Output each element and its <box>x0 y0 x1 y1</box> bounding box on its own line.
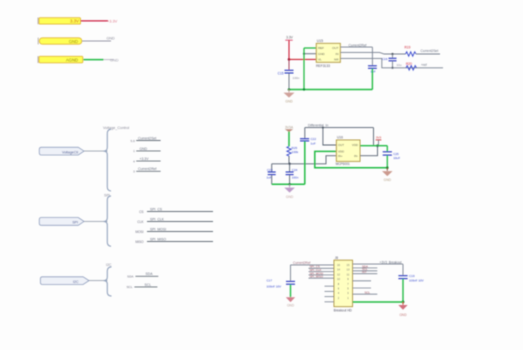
regulator U15 <box>316 39 340 68</box>
wire header left stub r8 <box>325 296 335 298</box>
svg-text:SPI_MISO: SPI_MISO <box>310 275 324 279</box>
svg-text:Differential_In: Differential_In <box>308 124 328 128</box>
svg-text:+ref: +ref <box>421 63 427 67</box>
wire header right r3 <box>353 270 378 272</box>
svg-text:J8: J8 <box>335 256 339 260</box>
capacitor C22 <box>300 128 316 146</box>
wire red to U15 <box>289 58 316 60</box>
svg-text:C23: C23 <box>267 168 273 172</box>
green bus circuit1 <box>289 89 372 91</box>
harness brace 2 <box>104 196 111 246</box>
junction K <box>386 166 389 169</box>
svg-text:Current2Set: Current2Set <box>421 49 439 53</box>
svg-text:CS: CS <box>139 210 143 214</box>
wire header left r3 <box>309 271 335 273</box>
resistor R20 <box>406 62 417 70</box>
svg-text:3.3V: 3.3V <box>70 19 79 24</box>
junction C <box>288 88 291 91</box>
svg-text:SDA: SDA <box>127 275 134 279</box>
wire node horizontal <box>272 156 337 164</box>
net Current2Set row1 <box>130 136 160 142</box>
svg-text:MISO: MISO <box>135 240 144 244</box>
header J8 <box>334 256 353 312</box>
resistor R25 <box>287 146 299 156</box>
wire green header bottom <box>353 301 404 303</box>
svg-text:OUT: OUT <box>332 46 339 50</box>
wire header left r1 <box>291 264 335 266</box>
wire 3.3V <box>81 20 109 22</box>
svg-text:SPI: SPI <box>72 221 78 225</box>
svg-text:VDD: VDD <box>352 143 358 147</box>
wire rowB out <box>416 53 440 55</box>
wire rowC <box>340 58 443 67</box>
wire green pin1 U15 <box>304 47 316 49</box>
svg-text:3.3V: 3.3V <box>286 36 294 40</box>
capacitor C17 <box>267 265 296 289</box>
junction H <box>288 183 291 186</box>
wire harness2 <box>84 220 107 222</box>
svg-text:+3V3_Breakout: +3V3_Breakout <box>380 260 402 264</box>
junction F <box>391 67 393 69</box>
svg-text:IN+: IN+ <box>338 154 343 158</box>
svg-text:SPI_MOSI: SPI_MOSI <box>150 227 166 231</box>
wire header right r2 <box>353 267 378 269</box>
wire green vert A <box>304 141 306 184</box>
power flag GND2 <box>37 56 39 63</box>
wire header right stub r5 <box>353 280 372 282</box>
wire pin1 opamp <box>323 128 337 145</box>
ground circuit2 <box>284 184 295 199</box>
net Current2Ref row4 <box>133 167 161 173</box>
svg-text:5,6: 5,6 <box>130 139 135 143</box>
net SPI_CS <box>139 207 213 213</box>
capacitor C23 <box>267 164 276 185</box>
junction E <box>391 53 393 55</box>
svg-text:1uF: 1uF <box>311 142 316 146</box>
net SDA <box>127 272 158 278</box>
op-amp U16 <box>336 136 360 166</box>
svg-text:3V3A: 3V3A <box>285 125 294 129</box>
svg-text:C16: C16 <box>382 57 388 61</box>
junction J <box>376 144 379 147</box>
power flag 3.3V <box>37 18 39 25</box>
wire harness3 <box>89 280 107 282</box>
ground circuit3 right <box>398 302 407 317</box>
wire rowB <box>340 52 405 54</box>
svg-text:GND: GND <box>107 36 116 40</box>
capacitor C25 <box>383 146 401 168</box>
svg-text:1uF: 1uF <box>267 176 272 180</box>
svg-text:+3.3V: +3.3V <box>140 157 150 161</box>
wire header right stub r6 <box>353 287 372 289</box>
svg-text:REF: REF <box>318 46 324 50</box>
junction G <box>288 163 290 165</box>
wire header left r2 <box>309 267 335 269</box>
svg-text:U16: U16 <box>337 136 343 140</box>
svg-text:GND: GND <box>384 178 392 182</box>
wire header left stub r6 <box>325 285 335 287</box>
wire header left r5 <box>309 277 335 279</box>
svg-text:GND: GND <box>286 195 294 199</box>
svg-text:OUT: OUT <box>338 143 344 147</box>
junction L <box>402 301 405 304</box>
harness brace 1 <box>104 129 111 191</box>
net +3.3V row3 <box>133 157 161 163</box>
harness connector Voltage_Control <box>39 147 84 155</box>
svg-text:C17: C17 <box>267 279 273 283</box>
ground circuit3 left <box>286 297 295 307</box>
wire header right r4 <box>353 273 378 275</box>
svg-text:10u: 10u <box>397 63 402 67</box>
svg-text:C24: C24 <box>292 168 298 172</box>
svg-text:GND: GND <box>285 100 293 104</box>
resistor R19 <box>405 45 417 56</box>
power symbol +3.3V circuit1 <box>285 36 293 41</box>
svg-text:+3.3V: +3.3V <box>107 18 118 23</box>
svg-text:100n: 100n <box>293 76 300 80</box>
svg-text:R19: R19 <box>405 45 411 49</box>
svg-text:Current2Ref: Current2Ref <box>138 167 157 171</box>
svg-text:IN-: IN- <box>354 154 358 158</box>
wire green C17 <box>290 285 292 298</box>
wire feedback vertical <box>373 128 375 146</box>
wire harness1 <box>84 150 107 152</box>
svg-text:I2C: I2C <box>106 263 112 267</box>
svg-text:C15: C15 <box>278 72 284 76</box>
svg-text:100n: 100n <box>292 176 299 180</box>
wire header left stub r9 <box>325 301 335 303</box>
svg-text:100nF 10V: 100nF 10V <box>267 284 282 288</box>
wire green vert C14 <box>371 69 373 90</box>
wire gray pin2 U15 <box>304 53 316 55</box>
harness connector I2C <box>40 277 89 285</box>
capacitor C16 <box>382 54 402 68</box>
svg-text:GND: GND <box>287 304 295 308</box>
svg-text:SCL: SCL <box>145 283 152 287</box>
svg-text:3: 3 <box>133 170 135 174</box>
wire rowA <box>340 46 372 48</box>
svg-text:SPI_MISO: SPI_MISO <box>150 237 166 241</box>
svg-text:GND: GND <box>318 52 326 56</box>
svg-text:Current2Ref: Current2Ref <box>293 261 310 265</box>
harness brace 3 <box>104 267 112 296</box>
svg-text:VoltageCtl: VoltageCtl <box>62 150 78 154</box>
wire node down <box>288 156 290 164</box>
wire gnd green <box>83 59 103 61</box>
svg-text:1: 1 <box>133 149 135 153</box>
svg-text:SCL: SCL <box>365 291 371 295</box>
svg-text:SCL: SCL <box>126 285 132 289</box>
power flag GND pill <box>37 38 39 45</box>
svg-text:SPI_CS: SPI_CS <box>150 207 163 211</box>
power symbol circuit2 top <box>285 125 294 132</box>
svg-text:GND: GND <box>399 313 407 317</box>
wire green pin2 opamp <box>315 151 388 167</box>
svg-text:MCP6001: MCP6001 <box>336 162 350 166</box>
power symbol 3V3 circuit2 <box>376 136 382 146</box>
junction D <box>303 88 305 90</box>
capacitor C24 <box>286 164 299 185</box>
net SCL <box>126 283 157 289</box>
svg-text:Voltage_Control: Voltage_Control <box>103 126 129 130</box>
wire header right stub r7 <box>353 293 378 295</box>
wire green vdd <box>360 145 387 147</box>
capacitor C19 <box>398 264 423 282</box>
wire header right r1 <box>353 263 404 265</box>
junction I <box>322 127 324 129</box>
svg-text:AGND: AGND <box>66 57 78 62</box>
svg-text:GND: GND <box>110 58 119 62</box>
svg-text:MOSI: MOSI <box>135 230 143 234</box>
wire header left r4 <box>309 274 335 276</box>
harness connector SPI <box>39 218 84 226</box>
capacitor C14 <box>368 47 377 73</box>
svg-text:REF3133: REF3133 <box>316 64 330 68</box>
svg-text:10uF: 10uF <box>393 156 400 160</box>
svg-text:Current2Ref: Current2Ref <box>349 43 367 47</box>
svg-text:4: 4 <box>133 159 135 163</box>
wire green C19 <box>402 279 404 302</box>
svg-text:I2C: I2C <box>73 280 79 284</box>
svg-text:INT: INT <box>362 270 367 274</box>
wire green vertical <box>303 48 305 90</box>
wire pin2 right opamp <box>360 146 378 156</box>
ground circuit2 right <box>382 168 393 183</box>
net SPI_CLK <box>137 217 213 223</box>
wire header left stub r7 <box>325 290 335 292</box>
svg-text:CLK: CLK <box>137 220 144 224</box>
net SPI_MISO <box>135 237 213 243</box>
svg-text:Breakout HD: Breakout HD <box>334 309 353 313</box>
svg-text:VL: VL <box>318 58 322 62</box>
svg-text:VDD: VDD <box>338 150 344 154</box>
wire green down <box>288 132 290 147</box>
junction A <box>288 58 291 61</box>
svg-text:Current2Set: Current2Set <box>138 136 156 140</box>
svg-text:100nF 10V: 100nF 10V <box>409 278 424 282</box>
svg-text:GND: GND <box>69 39 78 44</box>
net SPI_MOSI <box>135 227 213 233</box>
svg-text:SPI_CLK: SPI_CLK <box>150 217 165 221</box>
svg-text:GND: GND <box>140 147 148 151</box>
junction B <box>303 53 305 55</box>
wire stub gray <box>104 59 114 61</box>
svg-text:100k: 100k <box>292 150 299 154</box>
ground circuit1 <box>284 90 295 104</box>
wire gnd <box>82 40 111 42</box>
capacitor C15 <box>278 59 300 89</box>
green bus circuit2 left <box>272 183 305 185</box>
svg-text:SDA: SDA <box>146 272 154 276</box>
wire top differential <box>305 127 374 129</box>
svg-text:IN: IN <box>336 52 339 56</box>
svg-text:3V3: 3V3 <box>376 136 382 140</box>
svg-text:U15: U15 <box>317 39 323 43</box>
net GND row2 <box>133 147 161 153</box>
wire red vertical <box>288 40 290 59</box>
